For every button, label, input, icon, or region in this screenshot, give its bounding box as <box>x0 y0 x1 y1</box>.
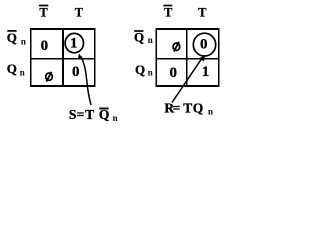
svg-text:T: T <box>85 107 94 122</box>
svg-text:Q: Q <box>7 61 17 76</box>
svg-text:T: T <box>164 6 173 20</box>
svg-text:n: n <box>148 35 153 45</box>
svg-text:T: T <box>183 101 192 116</box>
svg-text:Q: Q <box>7 30 17 45</box>
svg-text:n: n <box>20 68 25 78</box>
svg-text:T: T <box>198 6 207 20</box>
svg-text:0: 0 <box>41 38 49 54</box>
svg-text:=: = <box>173 101 181 116</box>
svg-text:Q: Q <box>135 62 145 77</box>
svg-text:1: 1 <box>202 64 210 80</box>
svg-text:n: n <box>21 37 26 47</box>
svg-text:T: T <box>75 6 84 20</box>
svg-text:n: n <box>208 106 213 116</box>
svg-text:=: = <box>77 107 85 122</box>
svg-text:n: n <box>113 113 118 123</box>
svg-text:Q: Q <box>134 30 144 45</box>
svg-text:Q: Q <box>193 101 204 116</box>
svg-text:1: 1 <box>70 36 78 52</box>
svg-text:T: T <box>39 6 48 20</box>
svg-text:0: 0 <box>72 64 80 80</box>
svg-text:S: S <box>69 107 77 122</box>
svg-text:0: 0 <box>200 37 208 53</box>
svg-text:0: 0 <box>169 65 177 81</box>
svg-text:n: n <box>148 68 153 78</box>
